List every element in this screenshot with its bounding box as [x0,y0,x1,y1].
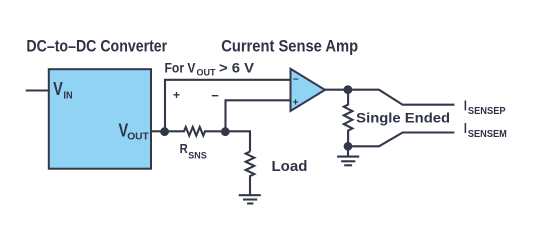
svg-text:Current Sense Amp: Current Sense Amp [221,37,358,56]
wire VIN input [26,89,48,91]
wire node B up to − amp input [226,100,291,131]
wire node B to load [226,131,251,151]
svg-text:Single Ended: Single Ended [356,109,450,125]
resistor Load [246,152,255,196]
svg-text:DC–to–DC Converter: DC–to–DC Converter [26,37,167,56]
wire amp output to node C [324,89,348,91]
node D junction [344,142,353,151]
svg-text:−: − [211,88,219,103]
wire node D to ISENSEM [348,133,454,147]
node B junction [221,127,230,136]
op-amp U2 [291,69,326,111]
svg-text:−: − [293,75,299,86]
svg-text:I: I [464,98,467,115]
node A junction (VOUT net) [160,127,169,136]
resistor RSNS [165,127,226,136]
svg-text:OUT: OUT [197,67,216,78]
svg-text:SENSEP: SENSEP [468,106,506,117]
svg-text:+: + [293,97,299,108]
svg-text:R: R [180,141,189,156]
svg-text:SENSEM: SENSEM [468,129,507,140]
ground (load) [239,195,261,203]
wire node A up to + sense input [165,80,290,132]
DC-to-DC converter block U1 [49,69,151,169]
node C junction (amp output) [344,85,353,94]
svg-text:IN: IN [63,90,72,102]
svg-text:> 6 V: > 6 V [219,60,255,76]
svg-text:Load: Load [272,158,308,175]
svg-text:+: + [173,88,180,102]
wire VOUT to node A [151,130,165,132]
resistor single-ended [344,90,353,147]
svg-text:I: I [464,120,467,137]
svg-text:OUT: OUT [127,131,149,143]
label For VOUT > 6 V [165,60,255,79]
wire node C to ISENSEP [348,90,454,105]
svg-text:SNS: SNS [188,151,206,162]
ground (single ended) [337,146,359,165]
svg-text:V: V [53,79,63,99]
svg-text:For V: For V [165,60,197,76]
